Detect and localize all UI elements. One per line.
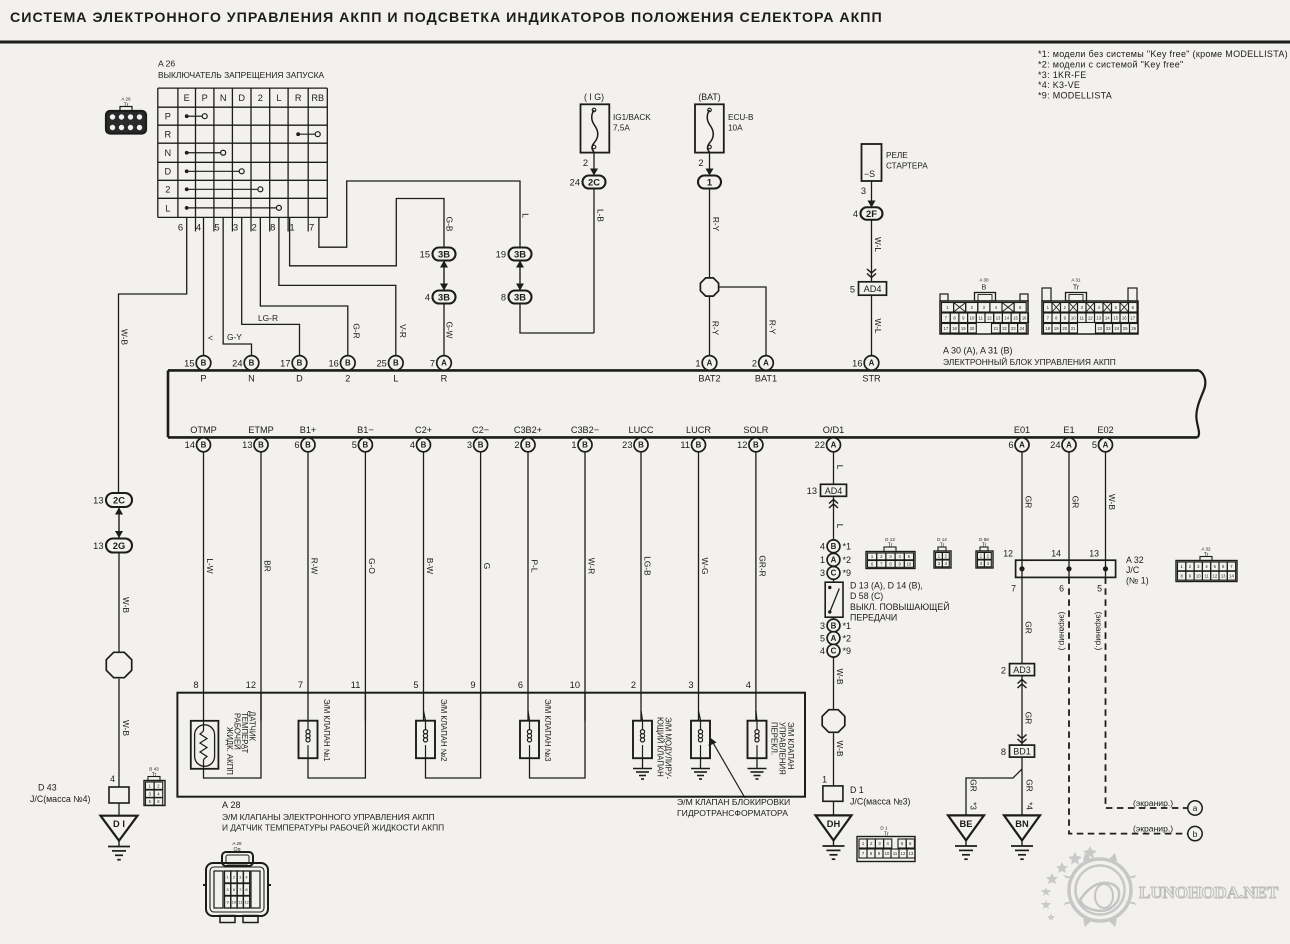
svg-text:8: 8 <box>953 315 956 320</box>
svg-text:LUNOHODA.NET: LUNOHODA.NET <box>1139 883 1279 902</box>
svg-text:W-B: W-B <box>121 597 131 613</box>
ECU bottom pin 11(B) LUCR <box>680 425 711 452</box>
svg-text:7: 7 <box>1011 584 1016 594</box>
svg-text:P: P <box>165 112 171 122</box>
svg-text:*4: *4 <box>1025 802 1035 810</box>
svg-text:4: 4 <box>887 841 890 846</box>
wire label W-G <box>700 558 710 575</box>
svg-text:A: A <box>763 359 769 368</box>
svg-text:R: R <box>441 374 448 384</box>
wire J/C to ground DH <box>833 801 835 815</box>
wire label BR <box>262 560 272 572</box>
svg-text:B: B <box>753 441 759 450</box>
svg-text:7: 7 <box>1047 315 1050 320</box>
svg-text:B: B <box>297 359 303 368</box>
svg-text:E: E <box>184 93 190 103</box>
svg-text:R-Y: R-Y <box>768 320 778 335</box>
svg-text:18: 18 <box>1045 326 1050 331</box>
wire label G-B <box>445 217 455 232</box>
svg-text:10: 10 <box>1071 315 1076 320</box>
wire label GR (E01 lower) <box>1023 712 1033 724</box>
wire LG-B from ECU to A28 <box>640 452 642 721</box>
wire label G-W <box>445 321 455 338</box>
svg-text:10: 10 <box>232 900 237 905</box>
label A 30 (A), A 31 (B) <box>943 346 1013 356</box>
svg-text:2C: 2C <box>113 494 125 505</box>
svg-text:*3: 1KR-FE: *3: 1KR-FE <box>1038 70 1087 80</box>
svg-text:13: 13 <box>93 495 103 505</box>
svg-text:3B: 3B <box>514 248 526 259</box>
ground symbol BE <box>955 840 977 859</box>
label (BAT) <box>698 92 720 102</box>
svg-text:12: 12 <box>246 680 256 690</box>
svg-text:W-B: W-B <box>120 329 130 345</box>
wire fuse IG to 24(2C) with pin 2 <box>583 153 598 176</box>
wire BD1 to ground BN <box>1021 757 1023 815</box>
svg-text:3: 3 <box>820 568 825 578</box>
wire R(pin1) to connector 15(3B) <box>290 199 444 266</box>
wire solenoid3 to pin 10 <box>530 693 586 778</box>
ECU top pin 17(B) D <box>280 356 307 384</box>
svg-text:12: 12 <box>244 900 249 905</box>
wire GR-R from ECU to A28 <box>755 452 757 721</box>
svg-text:W-L: W-L <box>873 237 883 252</box>
svg-text:24: 24 <box>1050 440 1060 450</box>
svg-text:8: 8 <box>889 562 892 567</box>
svg-text:1: 1 <box>946 305 949 310</box>
ECU top pin 16(B) 2 <box>328 356 355 384</box>
svg-text:2: 2 <box>345 374 350 384</box>
svg-text:10: 10 <box>885 851 890 856</box>
svg-text:7,5A: 7,5A <box>613 124 630 133</box>
svg-text:11: 11 <box>680 440 690 450</box>
svg-text:24: 24 <box>1114 326 1119 331</box>
svg-text:*2: *2 <box>843 633 852 643</box>
svg-text:LG-B: LG-B <box>642 556 652 576</box>
solenoid valve No1 <box>299 699 331 762</box>
svg-text:N: N <box>248 374 255 384</box>
junction connector J/C D43 box <box>109 787 129 803</box>
wire label G-R <box>352 323 362 338</box>
connector pictogram D14 <box>934 537 951 568</box>
svg-text:A: A <box>831 441 837 450</box>
svg-text:26: 26 <box>1131 326 1136 331</box>
svg-text:8: 8 <box>270 223 275 234</box>
svg-text:13: 13 <box>807 486 817 496</box>
svg-text:C: C <box>831 647 837 656</box>
svg-text:23: 23 <box>622 440 632 450</box>
svg-text:B: B <box>201 441 207 450</box>
wire label W-B (left lower) <box>121 720 131 736</box>
svg-text:19: 19 <box>1054 326 1059 331</box>
svg-text:4: 4 <box>987 561 990 566</box>
svg-text:BR: BR <box>262 560 272 572</box>
ECU bottom pin 13(B) ETMP <box>242 425 274 452</box>
svg-text:G-R: G-R <box>352 323 362 338</box>
svg-text:13: 13 <box>996 315 1001 320</box>
svg-text:C: C <box>831 569 837 578</box>
svg-text:GR: GR <box>969 779 979 791</box>
junction connector A32 J/C (№1) <box>1016 560 1116 577</box>
label A 28 <box>222 800 241 810</box>
svg-text:2: 2 <box>971 305 974 310</box>
svg-text:ЮЩИЙ КЛАПАН: ЮЩИЙ КЛАПАН <box>655 717 664 777</box>
svg-text:1: 1 <box>862 841 865 846</box>
wire label V-R <box>398 324 408 338</box>
wire label GR-R <box>757 555 767 576</box>
ECU bottom pin 5(B) B1&#8722; <box>352 425 374 452</box>
svg-text:19: 19 <box>961 326 966 331</box>
svg-text:Э/М КЛАПАН БЛОКИРОВКИ: Э/М КЛАПАН БЛОКИРОВКИ <box>677 797 790 807</box>
svg-text:*2: *2 <box>843 555 852 565</box>
svg-text:*1: *1 <box>843 621 852 631</box>
svg-text:17: 17 <box>1130 315 1135 320</box>
label D 43 J/C(масса №4) <box>30 783 91 805</box>
wire label L <box>521 213 531 218</box>
svg-text:(экранир.): (экранир.) <box>1133 824 1173 834</box>
svg-text:3B: 3B <box>438 248 450 259</box>
O/D switch lower pins 3(B)*1 5(A)*2 4(C)*9 <box>820 619 851 657</box>
wire O/D1 from ECU pin 22(A) <box>833 452 835 485</box>
svg-text:2: 2 <box>583 158 588 168</box>
continuation chevrons up (E01) <box>1018 680 1027 689</box>
svg-text:2: 2 <box>752 358 757 368</box>
connector pictogram D1 <box>857 826 915 862</box>
svg-text:A 30 (A), A 31 (B): A 30 (A), A 31 (B) <box>943 346 1013 356</box>
svg-text:AD3: AD3 <box>1013 665 1031 675</box>
svg-text:GR: GR <box>1025 779 1035 791</box>
svg-text:L: L <box>835 524 845 529</box>
svg-text:РЕЛЕ: РЕЛЕ <box>886 151 908 160</box>
callout arrow to lock-up solenoid <box>709 738 746 799</box>
ECU block band (A30/A31) <box>168 370 1205 437</box>
shielded wire E02 (dashed) <box>1106 577 1188 808</box>
label D 13 (A), D 14 (B), D 58 (C) <box>850 581 923 602</box>
svg-text:W-R: W-R <box>586 558 596 574</box>
svg-text:P-L: P-L <box>529 560 539 573</box>
svg-text:(экранир.): (экранир.) <box>1133 798 1173 808</box>
O/D switch upper pins 4(B)*1 1(A)*2 3(C)*9 <box>820 540 851 579</box>
svg-text:7: 7 <box>309 223 314 234</box>
svg-text:<: < <box>208 333 213 343</box>
switch pin numbers 6 4 5 3 2 8 1 7 with ticks <box>178 217 314 233</box>
shift control solenoid valve <box>748 721 795 779</box>
wire label W-B (O/D lower) <box>835 741 845 757</box>
wire label L (O/D1 upper) <box>835 465 845 470</box>
svg-text:4: 4 <box>110 774 115 784</box>
svg-text:ETMP: ETMP <box>248 425 274 435</box>
wire label GR (E01 upper) <box>1023 496 1033 508</box>
wire label R-Y (BAT1) <box>768 320 778 335</box>
svg-text:C2+: C2+ <box>415 425 432 435</box>
svg-text:11: 11 <box>893 851 898 856</box>
solenoid valve No2 <box>416 699 448 762</box>
svg-text:10: 10 <box>970 315 975 320</box>
svg-text:6: 6 <box>871 562 874 567</box>
svg-text:2: 2 <box>698 158 703 168</box>
junction box 5 AD4 <box>850 282 887 295</box>
node b circle <box>1188 826 1202 840</box>
svg-text:R-Y: R-Y <box>711 217 721 232</box>
svg-text:1: 1 <box>820 555 825 565</box>
svg-text:2: 2 <box>880 554 883 559</box>
svg-text:4: 4 <box>945 561 948 566</box>
svg-text:3: 3 <box>878 841 881 846</box>
ECU bottom pin 3(B) C2&#8722; <box>467 425 489 452</box>
wire label B-W <box>425 558 435 574</box>
svg-text:7: 7 <box>862 851 865 856</box>
svg-text:8: 8 <box>1180 573 1183 578</box>
svg-text:1: 1 <box>571 440 576 450</box>
svg-text:E01: E01 <box>1014 425 1030 435</box>
svg-text:G-O: G-O <box>367 558 377 574</box>
svg-text:24: 24 <box>232 358 242 368</box>
svg-text:4: 4 <box>820 646 825 656</box>
svg-text:22: 22 <box>1002 326 1007 331</box>
svg-text:*4: K3-VE: *4: K3-VE <box>1038 80 1080 90</box>
svg-text:6: 6 <box>1222 564 1225 569</box>
svg-text:B: B <box>831 621 837 630</box>
ECU bottom pin 2(B) C3B2+ <box>514 425 542 452</box>
ECU top pin 25(B) L <box>376 356 403 384</box>
svg-text:1: 1 <box>980 554 983 559</box>
modulating solenoid valve <box>633 717 673 780</box>
svg-text:4: 4 <box>853 209 858 219</box>
wire L-W from ECU to A28 <box>203 452 205 721</box>
connector 13(2C) <box>93 493 132 507</box>
svg-text:(BAT): (BAT) <box>698 92 720 102</box>
wire D(pin3) to ECU pin 17(B) <box>242 217 300 355</box>
svg-text:16: 16 <box>852 358 862 368</box>
label ВЫКЛ. ПОВЫШАЮЩЕЙ ПЕРЕДАЧИ <box>850 601 950 623</box>
wire pin2 into box jog <box>641 711 643 721</box>
wire AD4 to switch circles <box>833 496 835 540</box>
svg-text:4: 4 <box>820 542 825 552</box>
connector 24(2C) <box>570 176 606 189</box>
svg-text:10A: 10A <box>728 124 743 133</box>
label pin 1 (J/C) <box>822 775 827 785</box>
wire G-O from ECU to A28 <box>364 452 366 721</box>
svg-text:8: 8 <box>501 292 506 302</box>
label D 1 J/C(масса №3) <box>850 785 911 807</box>
ground symbol BN <box>1011 840 1033 859</box>
wire solenoid2 to pin 9 <box>426 693 481 778</box>
svg-text:9: 9 <box>1064 315 1067 320</box>
svg-text:23: 23 <box>1106 326 1111 331</box>
ECU bottom pin 14(B) OTMP <box>185 425 217 452</box>
node a circle <box>1188 801 1202 815</box>
svg-text:5: 5 <box>1097 584 1102 594</box>
svg-text:9: 9 <box>1189 573 1192 578</box>
ground symbol D1 <box>108 841 130 860</box>
svg-text:ПЕРЕКЛ.: ПЕРЕКЛ. <box>769 722 778 755</box>
svg-text:D: D <box>238 93 245 103</box>
svg-text:А 28: А 28 <box>222 800 241 810</box>
svg-text:Tr: Tr <box>1204 552 1209 558</box>
svg-text:B-W: B-W <box>425 558 435 574</box>
label (экранир.) vertical E1 <box>1058 612 1068 651</box>
wire label LG-B <box>642 556 652 576</box>
connector pictogram A26 (8-pin) <box>106 107 146 134</box>
wire pin5 into box jog <box>424 711 426 721</box>
svg-text:4: 4 <box>196 223 201 234</box>
wire O/D switch to splice <box>833 657 835 709</box>
svg-text:(№ 1): (№ 1) <box>1126 576 1149 586</box>
svg-text:6: 6 <box>518 680 523 690</box>
svg-text:L: L <box>835 465 845 470</box>
svg-text:24: 24 <box>1020 326 1025 331</box>
wire E01 to J/C A32 <box>1021 452 1023 560</box>
wire splice to ECU pin 1(A) BAT2 <box>709 297 711 356</box>
svg-text:AD4: AD4 <box>864 284 882 294</box>
svg-text:R: R <box>165 130 172 140</box>
svg-text:Tr: Tr <box>940 543 945 549</box>
svg-text:D: D <box>296 374 303 384</box>
ECU bottom pin 22(A) O/D1 <box>815 425 845 452</box>
svg-text:N: N <box>165 148 172 158</box>
svg-text:ГИДРОТРАНСФОРМАТОРА: ГИДРОТРАНСФОРМАТОРА <box>677 808 788 818</box>
svg-text:1: 1 <box>1047 305 1050 310</box>
wire label R-W <box>309 558 319 575</box>
svg-text:СИСТЕМА ЭЛЕКТРОННОГО УПРАВЛЕНИ: СИСТЕМА ЭЛЕКТРОННОГО УПРАВЛЕНИЯ АКПП И П… <box>10 10 883 26</box>
svg-text:10: 10 <box>570 680 580 690</box>
svg-text:A 31: A 31 <box>1071 278 1081 283</box>
splice node (BAT octagon) <box>700 278 718 296</box>
wire RB(pin7) to connector 19(3B) <box>319 181 520 248</box>
svg-text:L: L <box>276 93 281 103</box>
ECU top pin 1(A) BAT2 <box>695 356 720 384</box>
svg-text:GR-R: GR-R <box>757 555 767 576</box>
svg-text:13: 13 <box>1221 573 1226 578</box>
wire 2(pin2) to ECU pin 16(B) <box>260 217 347 355</box>
svg-text:6: 6 <box>1019 305 1022 310</box>
svg-text:7: 7 <box>239 887 242 892</box>
svg-text:15: 15 <box>1113 315 1118 320</box>
svg-text:ПЕРЕДАЧИ: ПЕРЕДАЧИ <box>850 613 897 623</box>
title underline <box>0 41 1290 44</box>
svg-text:1: 1 <box>707 176 712 187</box>
svg-text:8: 8 <box>245 887 248 892</box>
svg-text:2F: 2F <box>866 208 877 219</box>
svg-text:A 32: A 32 <box>1126 555 1144 565</box>
watermark lunohoda.net <box>1041 846 1279 927</box>
svg-text:20: 20 <box>970 326 975 331</box>
svg-text:8: 8 <box>1055 315 1058 320</box>
connector pictogram D58 <box>976 537 993 568</box>
svg-text:A 28: A 28 <box>232 841 242 846</box>
svg-text:10: 10 <box>1196 573 1201 578</box>
svg-text:14: 14 <box>1105 315 1110 320</box>
J/C A32 top pin numbers 12 14 13 <box>1003 549 1099 559</box>
svg-text:R-Y: R-Y <box>711 321 721 336</box>
wire pin6 into box jog <box>528 711 530 721</box>
svg-text:12: 12 <box>1003 549 1013 559</box>
svg-text:4: 4 <box>157 791 160 796</box>
svg-text:7: 7 <box>298 680 303 690</box>
label pin 4 (D43) <box>110 774 115 784</box>
shielded wire E1 (dashed) <box>1069 577 1188 833</box>
svg-text:LUCR: LUCR <box>686 425 711 435</box>
svg-text:13: 13 <box>909 851 914 856</box>
svg-text:Э/М КЛАПАН №2: Э/М КЛАПАН №2 <box>439 699 448 762</box>
svg-text:IG1/BACK: IG1/BACK <box>613 113 651 122</box>
wire label R-Y (upper) <box>711 217 721 232</box>
wire E02 to J/C A32 <box>1105 452 1107 560</box>
wire fuse BAT to connector 1 with pin 2 <box>698 153 713 176</box>
label (IG) <box>584 92 604 102</box>
wire sensor bottom to pin 12 <box>204 693 262 778</box>
svg-text:3B: 3B <box>438 291 450 302</box>
connector 19(3B) <box>496 248 532 261</box>
svg-text:3: 3 <box>889 554 892 559</box>
svg-text:9: 9 <box>227 900 230 905</box>
svg-text:LG-R: LG-R <box>258 313 278 323</box>
svg-text:15: 15 <box>1013 315 1018 320</box>
connector 1 (oval) <box>698 176 721 189</box>
svg-text:C3B2−: C3B2− <box>571 425 599 435</box>
svg-text:4: 4 <box>425 292 430 302</box>
svg-text:Tr: Tr <box>152 772 157 778</box>
svg-text:12: 12 <box>1088 315 1093 320</box>
svg-text:3: 3 <box>467 440 472 450</box>
svg-text:*3: *3 <box>969 802 979 810</box>
svg-text:*1: *1 <box>843 542 852 552</box>
wire W-G from ECU to A28 <box>698 452 700 721</box>
svg-text:13: 13 <box>1096 315 1101 320</box>
title: СИСТЕМА ЭЛЕКТРОННОГО УПРАВЛЕНИЯ АКПП <box>10 10 883 26</box>
svg-text:6: 6 <box>233 887 236 892</box>
wire B-W from ECU to A28 <box>423 452 425 721</box>
svg-text:b: b <box>1193 829 1198 839</box>
svg-text:14: 14 <box>185 440 195 450</box>
svg-text:B: B <box>249 359 255 368</box>
svg-text:A 26: A 26 <box>121 97 131 102</box>
svg-text:13: 13 <box>93 541 103 551</box>
svg-text:16: 16 <box>1122 315 1127 320</box>
svg-text:7: 7 <box>880 562 883 567</box>
svg-text:9: 9 <box>878 851 881 856</box>
svg-text:5: 5 <box>1115 305 1118 310</box>
svg-text:E1: E1 <box>1063 425 1074 435</box>
svg-text:D 13: D 13 <box>885 537 895 542</box>
svg-text:2: 2 <box>233 875 236 880</box>
svg-text:1: 1 <box>695 358 700 368</box>
connector pictogram A32 <box>1176 547 1237 582</box>
ground BN triangle <box>1004 815 1040 840</box>
svg-text:17: 17 <box>280 358 290 368</box>
svg-text:G: G <box>482 563 492 569</box>
splice node (left octagon) <box>106 652 131 677</box>
svg-text:G-Y: G-Y <box>227 332 242 342</box>
wire L-B from 24(2C) down to node <box>593 189 595 334</box>
svg-text:A: A <box>441 359 447 368</box>
svg-text:O/D1: O/D1 <box>823 425 844 435</box>
wire label LG-R <box>258 313 278 323</box>
svg-text:B1+: B1+ <box>300 425 317 435</box>
svg-text:B1−: B1− <box>357 425 374 435</box>
svg-text:16: 16 <box>328 358 338 368</box>
svg-text:B: B <box>363 441 369 450</box>
splice node (O/D octagon) <box>822 710 845 733</box>
svg-text:W-G: W-G <box>700 558 710 575</box>
svg-text:A: A <box>869 359 875 368</box>
svg-text:2: 2 <box>514 440 519 450</box>
svg-text:СТАРТЕРА: СТАРТЕРА <box>886 162 928 171</box>
svg-text:B: B <box>393 359 399 368</box>
svg-text:5: 5 <box>1092 440 1097 450</box>
svg-text:DH: DH <box>827 819 841 829</box>
fuse IG1/BACK 7,5A <box>581 104 610 152</box>
